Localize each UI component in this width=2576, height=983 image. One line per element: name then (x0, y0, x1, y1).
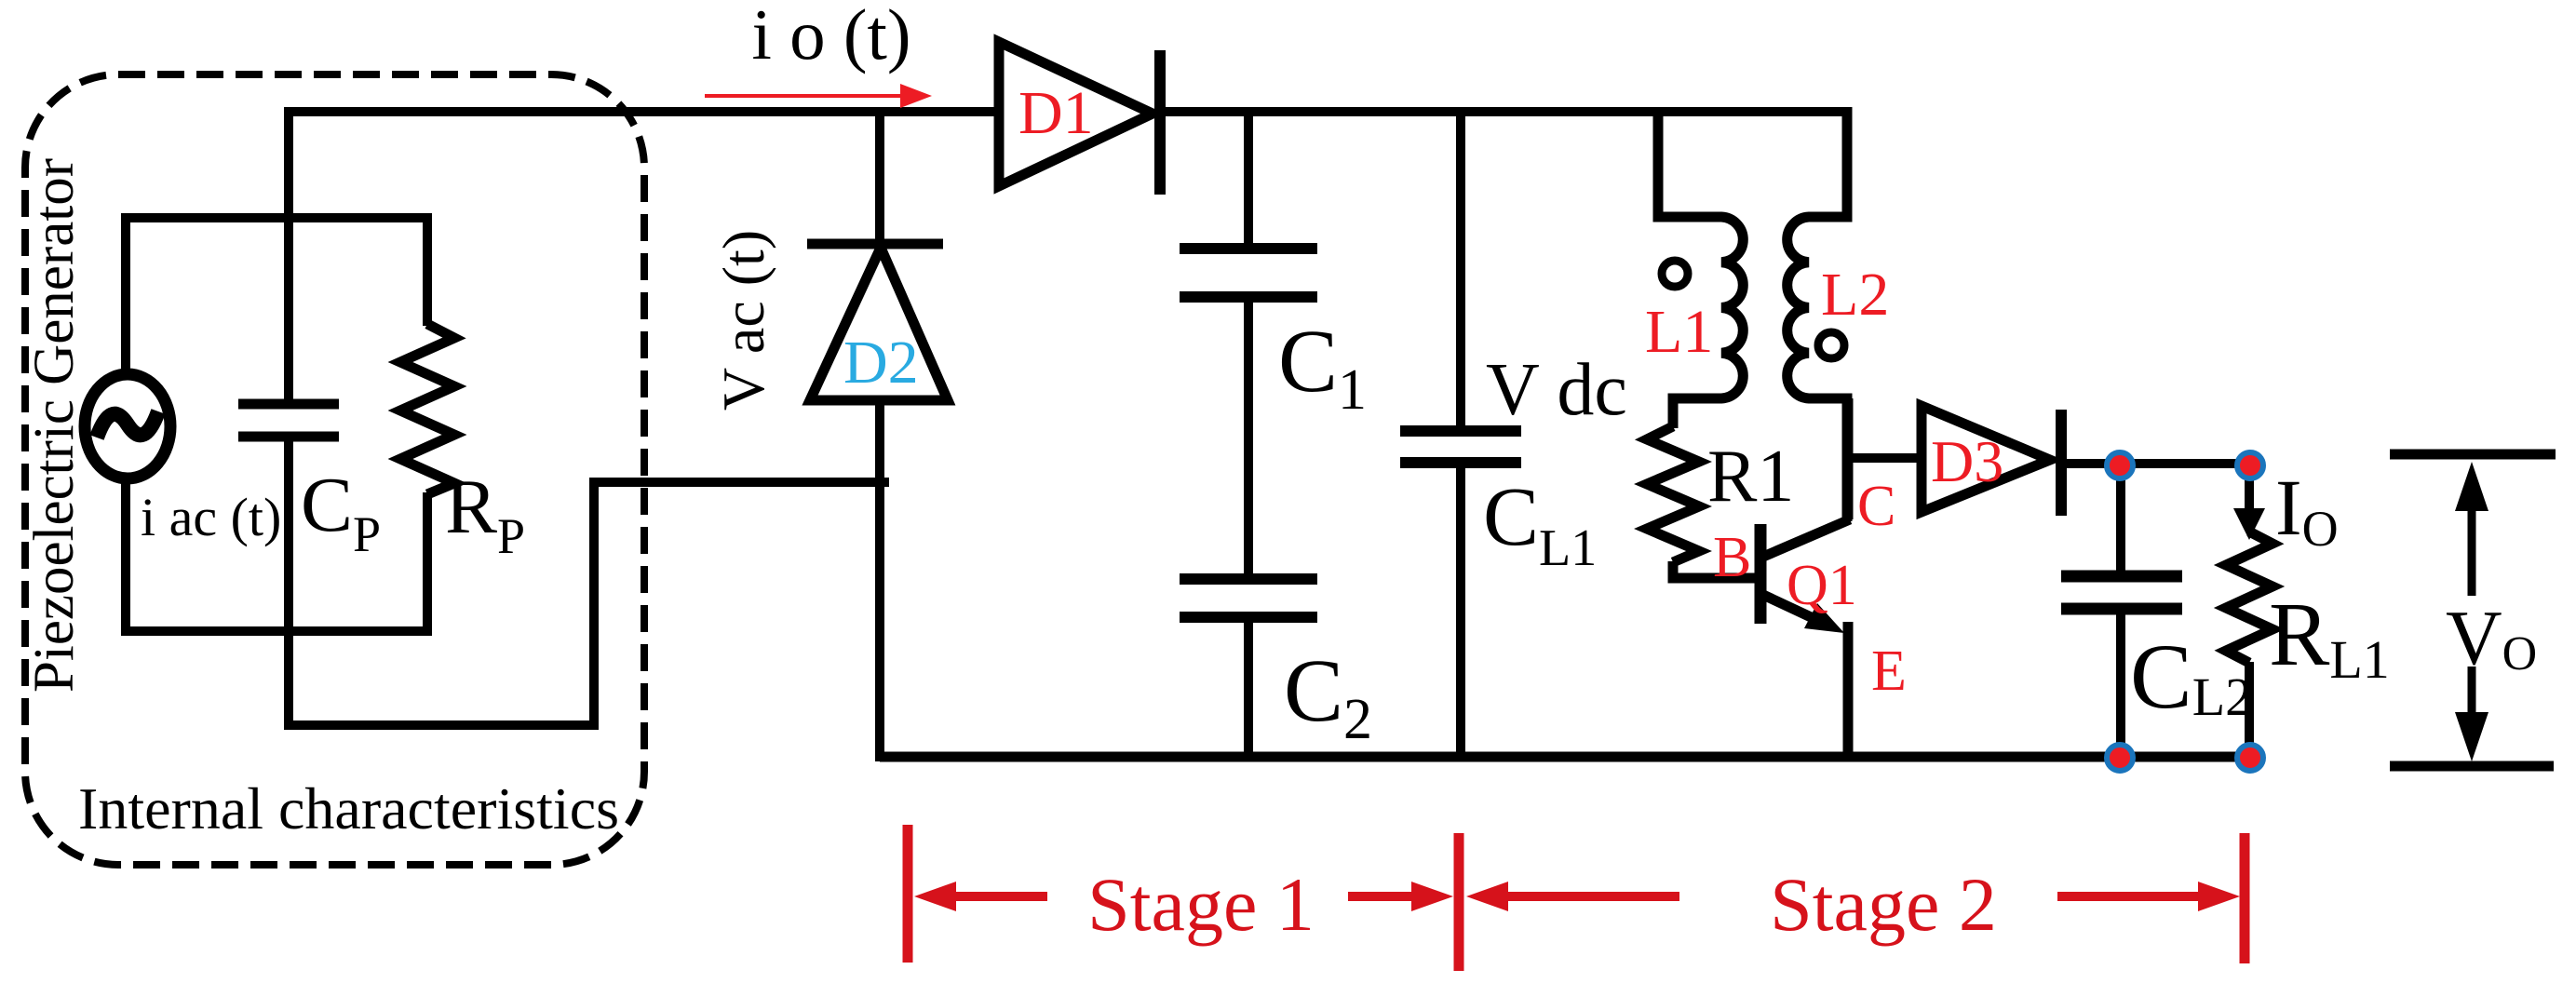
label C2 (1284, 640, 1372, 751)
wire: D3 cathode to load (2061, 459, 2250, 468)
svg-text:D3: D3 (1931, 428, 2003, 494)
label Stage 2 (1770, 862, 1997, 947)
label R1 (1707, 436, 1794, 518)
wire: generator output return (bottom) (284, 482, 889, 725)
label RL1 (2269, 585, 2390, 690)
label CP (301, 462, 381, 562)
svg-text:i o (t): i o (t) (751, 0, 910, 74)
capacitor C2 (1180, 579, 1317, 761)
capacitor CP (238, 107, 339, 730)
label E (1871, 640, 1907, 703)
svg-text:E: E (1871, 640, 1907, 703)
wire: inner top wire (126, 213, 427, 222)
capacitor CL2 (2061, 464, 2182, 759)
node dot top-left (2107, 452, 2133, 478)
svg-text:B: B (1713, 526, 1751, 589)
stage separator bar middle (1454, 833, 1464, 971)
wire: collector to D3 anode (1848, 453, 1922, 463)
label B (1713, 526, 1751, 589)
wire: inner bottom wire (126, 626, 427, 636)
svg-text:Internal characteristics: Internal characteristics (78, 775, 619, 842)
svg-text:i ac (t): i ac (t) (141, 487, 281, 547)
label V dc (1486, 349, 1627, 431)
svg-text:Q1: Q1 (1787, 554, 1857, 617)
wire: D2 top stub (875, 107, 884, 244)
label L1 (1645, 298, 1713, 366)
svg-text:Stage 1: Stage 1 (1087, 862, 1315, 947)
wire: AC source top stub (121, 213, 130, 376)
diode D1 (999, 42, 1160, 195)
svg-text:R1: R1 (1707, 436, 1794, 518)
svg-text:V ac (t): V ac (t) (710, 230, 776, 411)
diode D3 (1922, 406, 2061, 516)
label IO (2275, 463, 2339, 557)
label D1 (1018, 79, 1094, 147)
label: i ac (t) (141, 487, 281, 547)
dashed box: Internal characteristics of Piezoelectric Generator (25, 74, 644, 865)
inductor L2 (1787, 107, 1847, 521)
svg-text:Stage 2: Stage 2 (1770, 862, 1997, 947)
label D2 (843, 329, 919, 397)
node dot bottom-right (2237, 745, 2263, 771)
wire: bottom rail (880, 752, 2250, 762)
label C (1857, 475, 1895, 538)
label Q1 (1787, 554, 1857, 617)
label RP (445, 464, 525, 564)
wire: AC source bottom stub (121, 477, 130, 636)
stage 2 right arrow (2057, 882, 2240, 911)
AC current source i ac (85, 374, 170, 478)
label C1 (1278, 311, 1367, 422)
label VO (2446, 595, 2537, 681)
current arrow io(t) red (705, 84, 932, 108)
wire: top rail left segment (284, 107, 999, 116)
svg-text:Piezoelectric Generator: Piezoelectric Generator (23, 158, 86, 693)
label CL2 (2130, 625, 2252, 728)
svg-text:D1: D1 (1018, 79, 1094, 147)
capacitor C1 (1180, 107, 1317, 579)
label D3 (1931, 428, 2003, 494)
label Stage 1 (1087, 862, 1315, 947)
wire: top rail right segment (1160, 107, 1847, 116)
node dot top-right (2237, 452, 2263, 478)
stage 1 right arrow (1348, 882, 1453, 911)
svg-text:D2: D2 (843, 329, 919, 397)
label L2 (1821, 261, 1889, 329)
current arrow IO (black) and load resistor RL1 (2226, 464, 2273, 759)
svg-text:L2: L2 (1821, 261, 1889, 329)
label: Internal characteristics (78, 775, 619, 842)
label: i o (t) (751, 0, 910, 74)
node dot bottom-left (2107, 745, 2133, 771)
capacitor CL1 (1400, 107, 1521, 761)
resistor RP (400, 213, 454, 636)
stage 1 left arrow (914, 882, 1047, 911)
resistor R1 (1647, 426, 1758, 578)
stage separator bar left (903, 825, 913, 963)
diode D2 (807, 244, 948, 761)
transistor Q1 (1760, 398, 1850, 761)
inductor L1 (1658, 107, 1743, 428)
stage separator bar right (2240, 833, 2250, 963)
label: V ac (t) (710, 230, 776, 411)
stage 2 left arrow (1466, 882, 1679, 911)
label CL1 (1483, 471, 1597, 577)
svg-text:V dc: V dc (1486, 349, 1627, 431)
svg-text:L1: L1 (1645, 298, 1713, 366)
svg-text:C: C (1857, 475, 1895, 538)
label: Piezoelectric Generator (23, 158, 86, 693)
Vo measurement arrows (2390, 454, 2556, 766)
